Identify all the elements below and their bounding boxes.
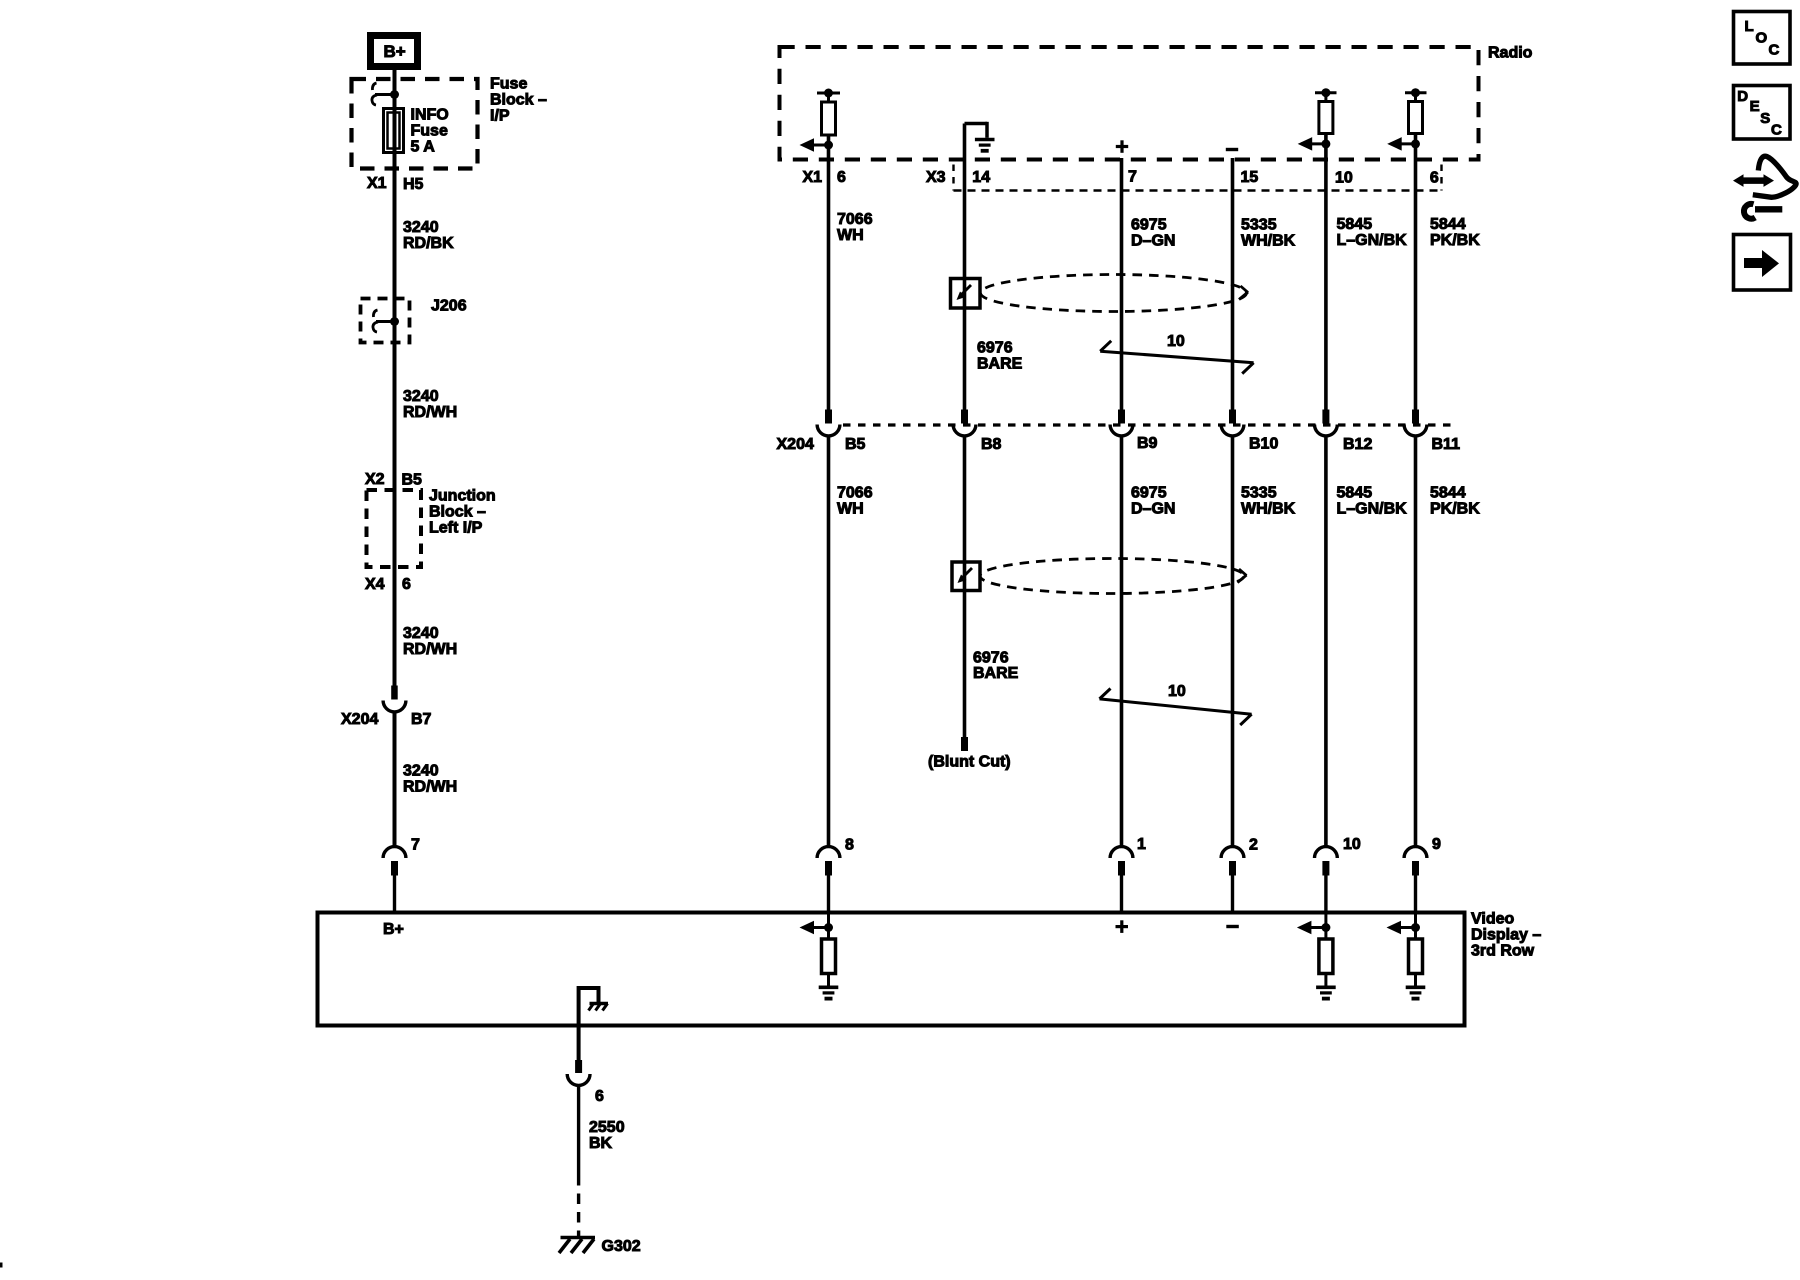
svg-text:Video: Video <box>1471 911 1515 928</box>
display connector pin 2 <box>1221 847 1244 913</box>
ground G302 symbol <box>559 1238 595 1254</box>
shield ellipse upper <box>981 275 1249 312</box>
svg-text:5844: 5844 <box>1430 485 1466 502</box>
svg-text:L: L <box>1745 18 1754 35</box>
twisted pair arrow lower <box>1100 689 1252 726</box>
svg-text:7: 7 <box>1128 169 1137 186</box>
radio label <box>1488 45 1533 62</box>
svg-text:WH/BK: WH/BK <box>1241 233 1296 250</box>
twist count 10 lower <box>1168 683 1186 700</box>
svg-text:J206: J206 <box>431 298 467 315</box>
twisted pair arrow upper <box>1100 341 1253 374</box>
svg-text:7066: 7066 <box>837 485 873 502</box>
connector X204 terminal B8 <box>953 410 976 436</box>
svg-text:10: 10 <box>1343 836 1361 853</box>
display pin labels row <box>845 836 1441 854</box>
svg-text:6: 6 <box>837 169 846 186</box>
J206 label <box>431 298 467 315</box>
X204 row labels <box>777 435 1461 453</box>
svg-text:X2: X2 <box>365 471 385 488</box>
wire 5335 WH/BK lower <box>1231 436 1235 849</box>
pin 7 label <box>411 837 420 854</box>
svg-text:5844: 5844 <box>1430 216 1466 233</box>
svg-text:3240: 3240 <box>403 219 439 236</box>
svg-text:X204: X204 <box>341 711 378 728</box>
connector X3 dotted outline <box>954 165 1442 191</box>
svg-text:B5: B5 <box>845 436 866 453</box>
wiring repair icon <box>1733 156 1796 219</box>
display connector pin 9 <box>1404 847 1427 913</box>
radio internal signal arrow wire1 <box>800 138 834 152</box>
svg-text:D–GN: D–GN <box>1131 501 1175 518</box>
svg-text:RD/WH: RD/WH <box>403 404 457 421</box>
display connector pin 1 <box>1110 847 1133 913</box>
svg-text:3240: 3240 <box>403 625 439 642</box>
junction block left I/P dashed box <box>367 490 422 567</box>
wire 6975 D-GN radio drop <box>1120 158 1124 411</box>
ground dashed lead <box>577 1175 580 1236</box>
svg-text:15: 15 <box>1241 169 1259 186</box>
svg-text:B9: B9 <box>1137 435 1158 452</box>
radio internal supply bar wire5 <box>1315 88 1337 101</box>
fuse value label <box>411 107 449 156</box>
wire 6975 D-GN lower <box>1120 436 1124 849</box>
fuse block label <box>490 76 547 125</box>
radio internal ground wire2 <box>965 122 995 151</box>
ground connector pin 6 <box>567 1060 590 1085</box>
connector X204 B7 inline <box>383 686 406 712</box>
svg-text:7: 7 <box>411 837 420 854</box>
shield label 6976 BARE upper <box>977 340 1023 373</box>
svg-text:6976: 6976 <box>977 340 1013 357</box>
svg-text:WH/BK: WH/BK <box>1241 501 1296 518</box>
wire label 2550 BK <box>589 1119 625 1152</box>
wire label 5844 PK/BK upper <box>1430 216 1480 249</box>
radio internal signal arrow wire5 <box>1298 137 1331 151</box>
svg-text:B+: B+ <box>384 42 406 61</box>
wire label 5335 WH/BK upper <box>1241 217 1296 250</box>
svg-text:6975: 6975 <box>1131 217 1167 234</box>
splice J206 terminal <box>373 310 399 332</box>
page mark bottom left <box>0 1263 3 1268</box>
svg-text:7066: 7066 <box>837 211 873 228</box>
shield drain wire upper <box>963 124 967 411</box>
svg-text:5 A: 5 A <box>411 139 436 156</box>
connector X204 terminal B10 <box>1221 410 1244 436</box>
wire 2550 BK <box>577 1085 580 1175</box>
svg-text:X3: X3 <box>926 169 946 186</box>
svg-text:10: 10 <box>1335 170 1353 187</box>
connector X204 terminal B11 <box>1404 410 1427 436</box>
svg-text:E: E <box>1750 98 1760 115</box>
svg-text:10: 10 <box>1167 333 1185 350</box>
wire label 5844 PK/BK lower <box>1430 485 1480 518</box>
svg-text:BK: BK <box>589 1135 613 1152</box>
wire label 3240 RD/WH middle <box>403 625 457 658</box>
blunt cut label <box>928 754 1011 771</box>
svg-text:Block –: Block – <box>490 92 547 109</box>
svg-text:D: D <box>1737 88 1748 105</box>
radio internal signal arrow wire6 <box>1387 137 1420 151</box>
battery feed B+ box <box>371 36 418 67</box>
svg-text:2: 2 <box>1249 837 1258 854</box>
display internal ground wire 10 <box>1316 974 1336 999</box>
wire label 6975 D-GN lower <box>1131 485 1175 518</box>
display minus mark <box>1226 925 1239 928</box>
svg-text:10: 10 <box>1168 683 1186 700</box>
shield termination square lower <box>952 562 980 591</box>
display internal resistor wire 10 <box>1319 939 1333 974</box>
connector X204 dashed line <box>843 423 1452 426</box>
svg-text:(Blunt Cut): (Blunt Cut) <box>928 754 1011 771</box>
svg-text:6975: 6975 <box>1131 485 1167 502</box>
LOC icon box <box>1734 12 1791 65</box>
radio internal supply bar wire6 <box>1405 88 1427 101</box>
svg-text:3240: 3240 <box>403 763 439 780</box>
svg-text:1: 1 <box>1137 836 1146 853</box>
wire 5335 WH/BK radio drop <box>1231 158 1235 411</box>
fuse INFO 5A <box>384 109 404 153</box>
G302 label <box>602 1238 641 1255</box>
twist count 10 upper <box>1167 333 1185 350</box>
display internal ground lead <box>579 986 599 1060</box>
svg-text:6: 6 <box>1430 170 1439 187</box>
forward arrow icon box <box>1734 235 1791 291</box>
junction dot at fuse terminal <box>390 90 399 99</box>
svg-text:X1: X1 <box>367 175 387 192</box>
display internal arrow wire 10 <box>1297 913 1331 940</box>
svg-text:Block –: Block – <box>429 504 486 521</box>
wire label 3240 RD/BK <box>403 219 454 252</box>
svg-text:G302: G302 <box>602 1238 641 1255</box>
fuse block terminal hooks <box>372 83 395 105</box>
svg-text:6: 6 <box>595 1088 604 1105</box>
svg-text:H5: H5 <box>403 176 424 193</box>
video display label <box>1471 911 1541 960</box>
radio pin labels X3 row <box>926 169 1439 187</box>
display connector pin 7 <box>383 847 406 913</box>
svg-text:B+: B+ <box>383 921 404 938</box>
junction block label <box>429 488 496 537</box>
svg-text:X1: X1 <box>803 169 823 186</box>
svg-text:5845: 5845 <box>1337 485 1373 502</box>
svg-text:Left I/P: Left I/P <box>429 520 483 537</box>
svg-text:RD/WH: RD/WH <box>403 641 457 658</box>
wire 5845 L-GN/BK radio drop <box>1324 134 1328 411</box>
svg-text:9: 9 <box>1432 836 1441 853</box>
svg-text:Radio: Radio <box>1488 45 1533 62</box>
svg-text:B7: B7 <box>411 711 432 728</box>
svg-text:14: 14 <box>972 169 990 186</box>
minus mark radio <box>1226 148 1238 151</box>
svg-text:PK/BK: PK/BK <box>1430 501 1480 518</box>
svg-text:RD/BK: RD/BK <box>403 235 454 252</box>
wire 5844 PK/BK radio drop <box>1414 134 1418 411</box>
wire label 5845 L-GN/BK upper <box>1337 216 1408 249</box>
svg-text:B10: B10 <box>1249 436 1278 453</box>
ground pin 6 label <box>595 1088 604 1105</box>
svg-text:B12: B12 <box>1343 436 1372 453</box>
svg-text:5335: 5335 <box>1241 485 1277 502</box>
display connector pin 8 <box>817 847 840 913</box>
pin X1 H5 labels <box>367 175 424 193</box>
display internal ground wire 8 <box>819 974 839 999</box>
radio dashed box <box>780 47 1479 160</box>
shield label 6976 BARE lower <box>973 650 1019 683</box>
pin X2 B5 labels <box>365 471 422 489</box>
radio pin labels X1 6 <box>803 169 847 186</box>
svg-text:8: 8 <box>845 837 854 854</box>
radio internal resistor wire1 <box>822 102 836 135</box>
svg-text:6: 6 <box>402 576 411 593</box>
plus mark radio <box>1116 140 1128 153</box>
shield drain wire lower <box>963 436 967 738</box>
wire 3240 RD/WH to display <box>393 712 397 849</box>
wire label 6975 D-GN upper <box>1131 217 1175 250</box>
svg-text:Fuse: Fuse <box>490 76 527 93</box>
display internal resistor wire 8 <box>822 939 836 974</box>
svg-text:L–GN/BK: L–GN/BK <box>1337 501 1408 518</box>
svg-text:Fuse: Fuse <box>411 123 448 140</box>
X204 B7 labels <box>341 711 432 728</box>
svg-text:BARE: BARE <box>973 665 1019 682</box>
wire 5845 L-GN/BK lower <box>1324 436 1328 849</box>
display internal ground wire 9 <box>1406 974 1426 999</box>
svg-text:2550: 2550 <box>589 1119 625 1136</box>
splice J206 dashed box <box>361 299 410 343</box>
display plus mark <box>1116 920 1129 933</box>
svg-text:B11: B11 <box>1432 436 1461 453</box>
svg-text:X204: X204 <box>777 436 814 453</box>
display internal chassis ground symbol <box>589 1004 609 1011</box>
svg-text:L–GN/BK: L–GN/BK <box>1337 232 1408 249</box>
display connector pin 10 <box>1315 847 1338 913</box>
connector X204 terminal B9 <box>1110 410 1133 436</box>
wire label 5845 L-GN/BK lower <box>1337 485 1408 518</box>
svg-text:O: O <box>1756 29 1768 46</box>
radio internal resistor wire6 <box>1409 102 1423 134</box>
svg-text:PK/BK: PK/BK <box>1430 232 1480 249</box>
blunt cut pin <box>961 737 968 751</box>
wire 7066 WH lower <box>827 436 831 849</box>
svg-text:S: S <box>1760 110 1770 127</box>
svg-text:B8: B8 <box>981 436 1002 453</box>
svg-text:6976: 6976 <box>973 650 1009 667</box>
wire 5844 PK/BK lower <box>1414 436 1418 849</box>
svg-text:X4: X4 <box>365 576 385 593</box>
wire label 3240 RD/WH upper <box>403 388 457 421</box>
svg-text:RD/WH: RD/WH <box>403 779 457 796</box>
connector X204 terminal B12 <box>1315 410 1338 436</box>
radio internal supply bar wire1 <box>817 89 840 103</box>
display internal resistor wire 9 <box>1409 939 1423 974</box>
shield ellipse lower <box>980 559 1247 594</box>
svg-text:I/P: I/P <box>490 108 510 125</box>
wire label 7066 WH upper <box>837 211 873 244</box>
svg-text:C: C <box>1769 42 1780 59</box>
pin X4 6 labels <box>365 576 411 593</box>
svg-text:5335: 5335 <box>1241 217 1277 234</box>
radio internal resistor wire5 <box>1319 102 1333 134</box>
svg-text:5845: 5845 <box>1337 216 1373 233</box>
display B+ label <box>383 921 404 938</box>
svg-text:3rd Row: 3rd Row <box>1471 943 1535 960</box>
connector X204 terminal B5 <box>817 410 840 436</box>
svg-text:WH: WH <box>837 501 864 518</box>
DESC icon box <box>1734 86 1791 140</box>
wire 3240 from B+ through fuse <box>393 70 397 686</box>
video display 3rd row box <box>318 913 1465 1026</box>
svg-text:D–GN: D–GN <box>1131 233 1175 250</box>
wire label 5335 WH/BK lower <box>1241 485 1296 518</box>
svg-text:Junction: Junction <box>429 488 496 505</box>
wire 7066 WH radio drop <box>827 135 831 411</box>
wire label 3240 RD/WH lower <box>403 763 457 796</box>
svg-text:Display –: Display – <box>1471 927 1541 944</box>
svg-text:C: C <box>1771 122 1782 139</box>
svg-text:INFO: INFO <box>411 107 449 124</box>
fuse block I/P dashed box <box>352 79 478 169</box>
svg-text:B5: B5 <box>402 472 423 489</box>
shield termination square upper <box>951 279 981 309</box>
display internal arrow wire 8 <box>800 913 834 940</box>
wire label 7066 WH lower <box>837 485 873 518</box>
svg-text:3240: 3240 <box>403 388 439 405</box>
svg-text:WH: WH <box>837 227 864 244</box>
svg-text:BARE: BARE <box>977 356 1023 373</box>
display internal arrow wire 9 <box>1387 913 1421 940</box>
